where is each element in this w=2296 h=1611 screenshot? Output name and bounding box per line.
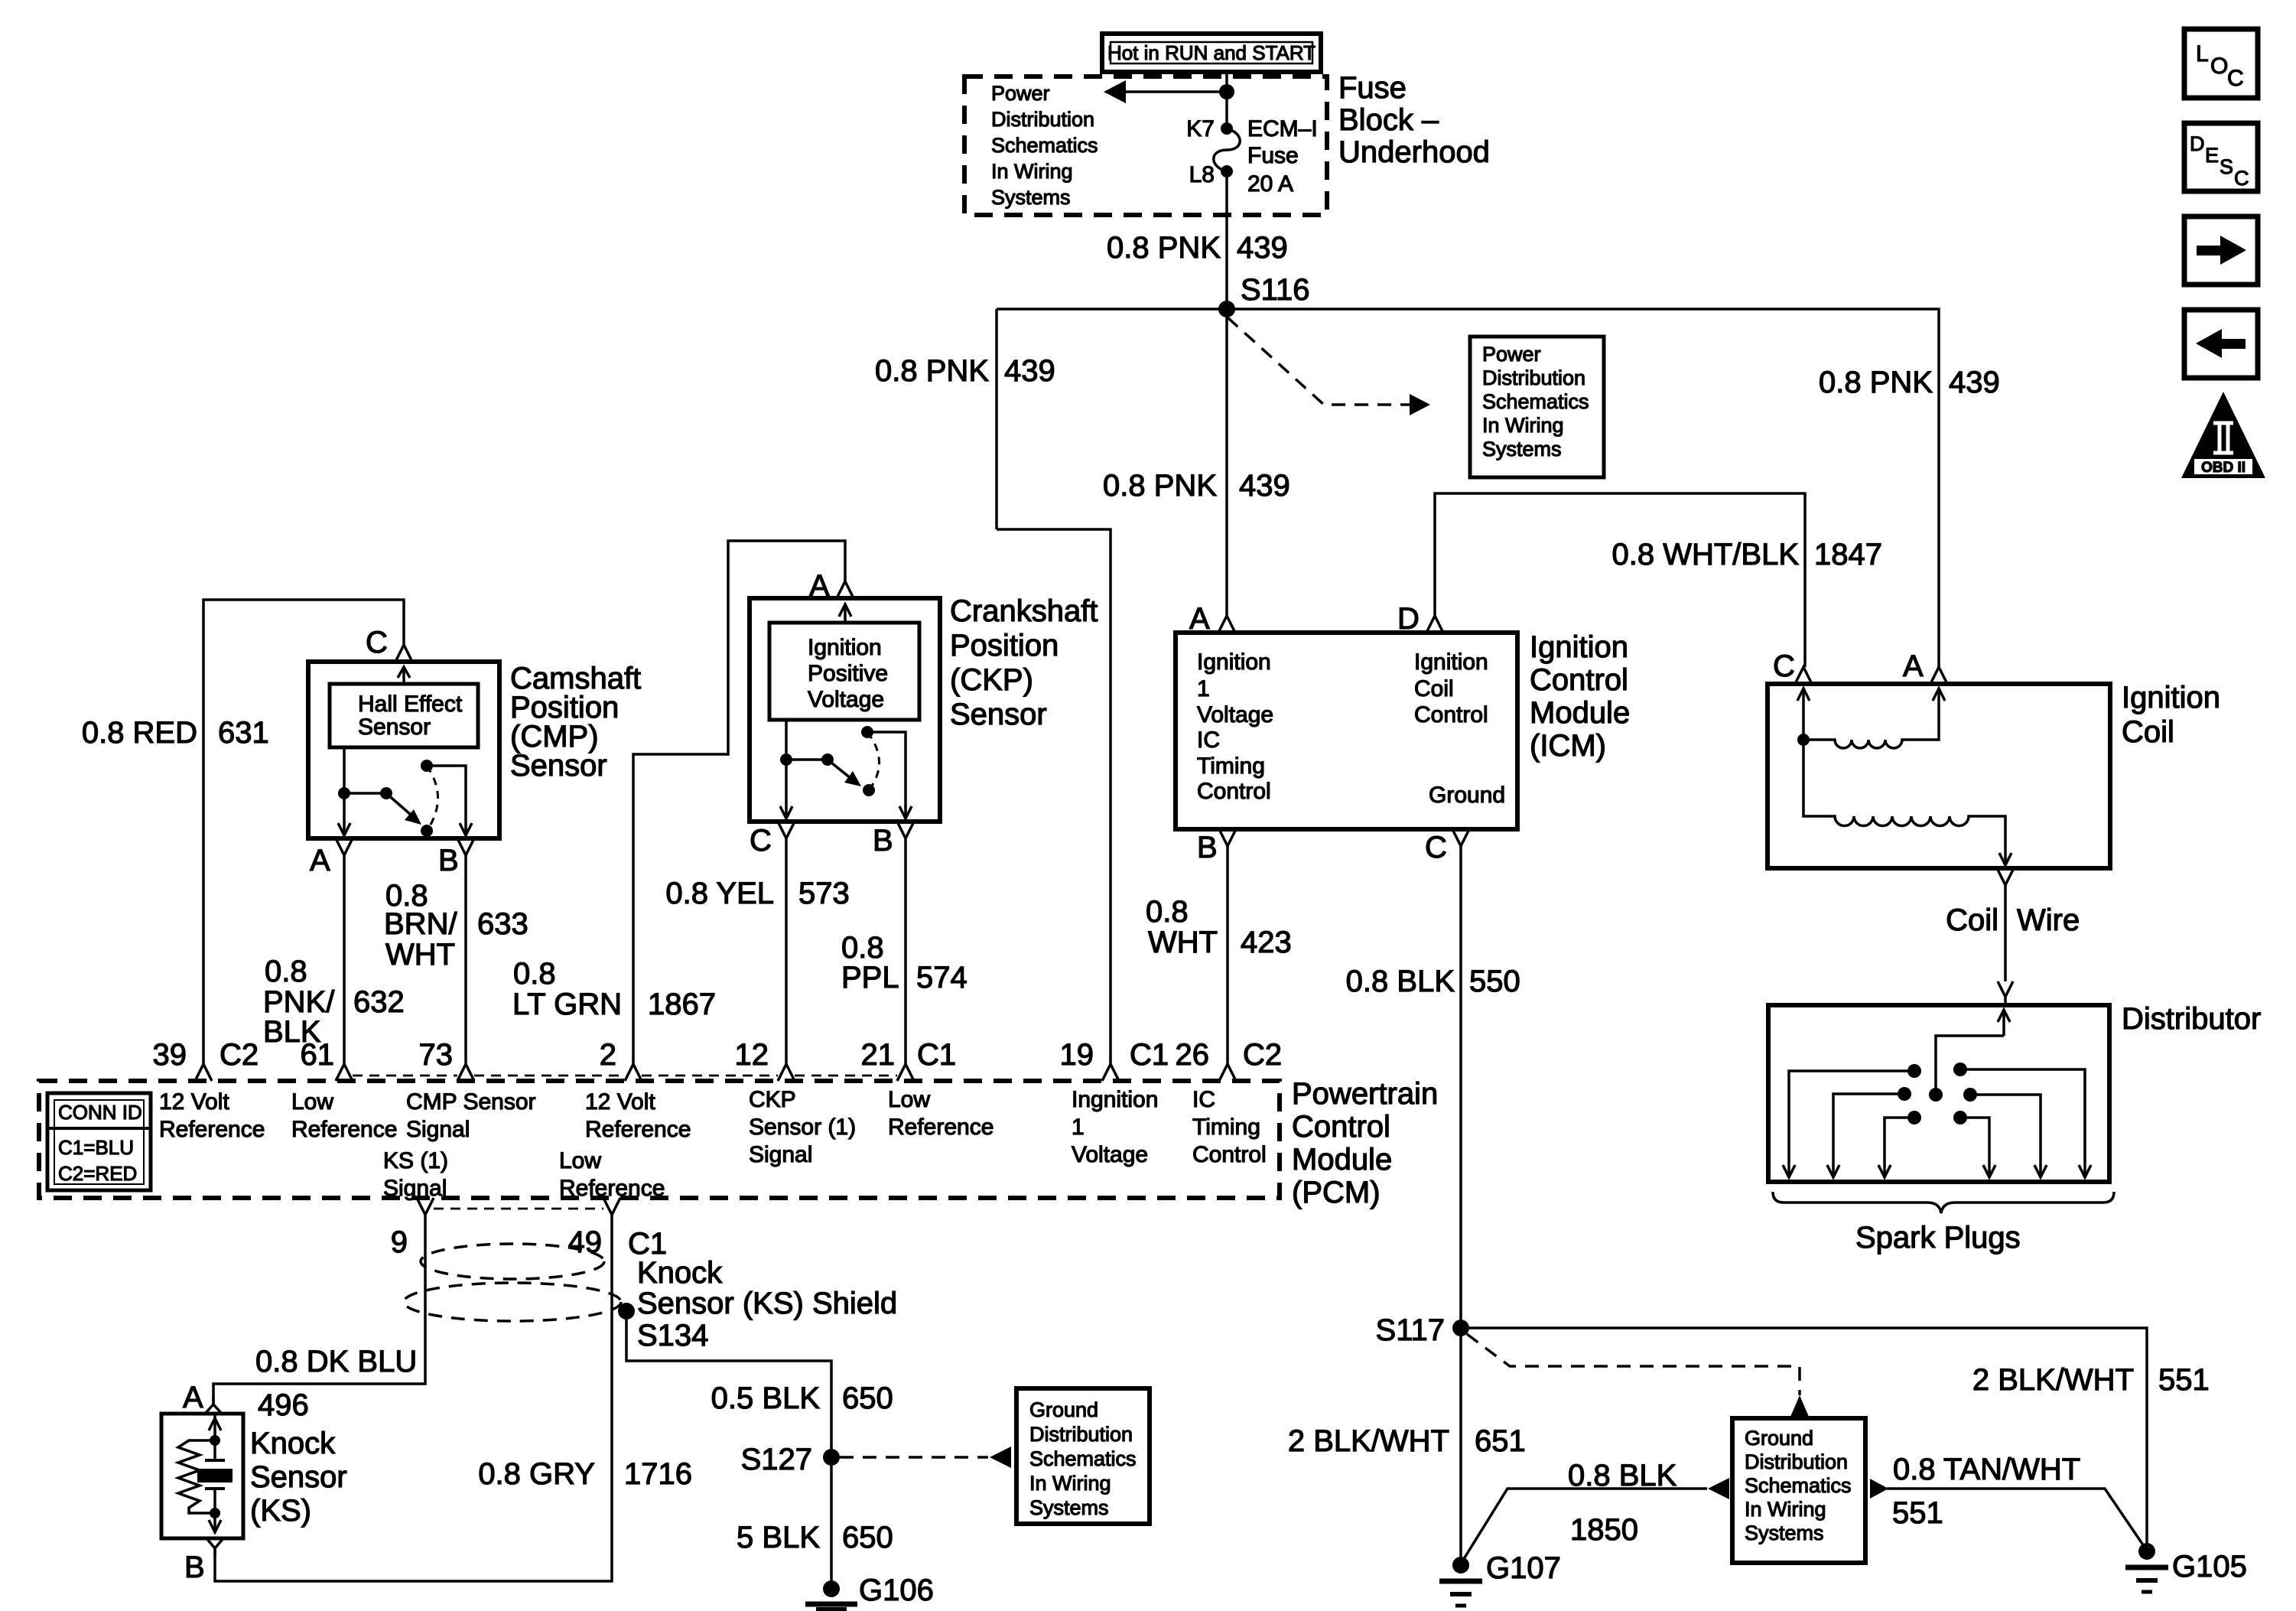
CMP internal output arrow	[398, 667, 410, 684]
svg-text:0.8: 0.8	[265, 955, 307, 988]
connector pin C of CMP	[366, 626, 412, 662]
CONN ID box	[47, 1093, 151, 1190]
svg-text:Timing: Timing	[1197, 753, 1265, 779]
wire: S117 right 2 BLK/WHT 551 to G105	[1461, 1328, 2147, 1551]
svg-text:439: 439	[1949, 366, 2000, 399]
connector pin 2 of PCM	[600, 1038, 642, 1081]
ignition control module ICM box	[1176, 633, 1517, 829]
connector pin D of ICM	[1397, 602, 1443, 636]
svg-text:G107: G107	[1486, 1551, 1561, 1585]
svg-text:C: C	[1425, 831, 1447, 864]
svg-text:S127: S127	[741, 1443, 812, 1476]
svg-text:Ignition: Ignition	[1414, 649, 1488, 675]
connector pin C of ICM	[1425, 829, 1469, 864]
connector grouping dashes	[353, 1075, 897, 1077]
svg-text:439: 439	[1004, 354, 1055, 388]
svg-text:Hall Effect: Hall Effect	[358, 692, 463, 717]
svg-text:C1: C1	[1130, 1038, 1169, 1072]
camshaft position sensor CMP box	[308, 662, 499, 838]
svg-text:1847: 1847	[1814, 538, 1882, 571]
connector pin B of knock sensor	[184, 1538, 223, 1584]
svg-text:Signal: Signal	[406, 1117, 470, 1142]
svg-text:1: 1	[1072, 1115, 1085, 1140]
svg-text:C2: C2	[1243, 1038, 1282, 1072]
svg-text:BRN/: BRN/	[384, 907, 457, 941]
svg-text:Reference: Reference	[291, 1117, 397, 1142]
CMP internal switch	[338, 747, 472, 837]
svg-text:Knock: Knock	[637, 1256, 723, 1290]
svg-text:9: 9	[391, 1225, 408, 1259]
svg-text:IC: IC	[1192, 1087, 1215, 1112]
icon LOC	[2184, 29, 2258, 98]
connector pin 49 C1 of PCM	[568, 1198, 668, 1261]
powertrain control module PCM dashed box	[39, 1081, 1280, 1198]
svg-text:LT GRN: LT GRN	[512, 988, 622, 1021]
svg-text:0.8 PNK: 0.8 PNK	[1103, 469, 1217, 503]
svg-text:1850: 1850	[1570, 1513, 1638, 1547]
svg-text:12: 12	[735, 1038, 769, 1072]
ground G107	[1439, 1551, 1561, 1606]
svg-text:Spark Plugs: Spark Plugs	[1855, 1221, 2021, 1255]
Power Distribution Schematics box (right of S116)	[1470, 337, 1604, 477]
svg-text:Ignition: Ignition	[808, 635, 882, 660]
arrow to power distribution	[1104, 80, 1227, 103]
svg-text:WHT: WHT	[385, 938, 455, 971]
svg-text:21: 21	[861, 1038, 896, 1072]
svg-text:0.8 PNK: 0.8 PNK	[1107, 231, 1221, 265]
svg-text:573: 573	[798, 877, 850, 910]
wire: ICM B 0.8 WHT 423 to PCM 26	[1226, 846, 1229, 1064]
wire: CKP A 0.8 LT GRN 1867	[633, 541, 845, 1064]
svg-text:B: B	[438, 844, 459, 877]
svg-text:73: 73	[419, 1038, 454, 1072]
wire: 0.8 PNK 439 left vertical	[995, 309, 998, 529]
svg-text:439: 439	[1237, 231, 1288, 265]
connector pin C of ignition coil	[1773, 649, 1812, 684]
wire: battery feed down from Hot box	[1225, 72, 1228, 129]
svg-text:651: 651	[1475, 1424, 1526, 1458]
icon arrow left	[2184, 310, 2258, 378]
svg-text:Sensor: Sensor	[358, 714, 431, 740]
svg-text:20 A: 20 A	[1247, 171, 1293, 197]
svg-text:Wire: Wire	[2017, 903, 2080, 937]
svg-text:496: 496	[258, 1388, 309, 1422]
PCM pin function labels	[159, 1087, 1267, 1201]
svg-text:Ground: Ground	[1429, 783, 1505, 808]
connector pin A of CMP	[310, 838, 353, 877]
svg-text:631: 631	[218, 716, 269, 750]
wire: CKP B 0.8 PPL 574	[904, 838, 907, 1064]
connector: coil output	[1997, 868, 2014, 885]
svg-text:K7: K7	[1186, 116, 1215, 142]
ground G106	[805, 1574, 934, 1609]
wire: S116 down to ICM A 0.8 PNK 439	[1225, 309, 1228, 616]
svg-text:Reference: Reference	[888, 1115, 994, 1140]
svg-text:L8: L8	[1189, 162, 1215, 187]
svg-text:S134: S134	[637, 1319, 708, 1352]
connector pin 9 of PCM	[391, 1198, 434, 1259]
wire: coil wire	[2004, 885, 2007, 981]
CKP internal switch	[780, 720, 912, 819]
wire: S116 right branch to ignition coil A	[1227, 309, 1939, 667]
wire: CMP C pin 0.8 RED 631	[203, 600, 404, 1064]
svg-text:B: B	[1197, 831, 1218, 864]
svg-text:Distributor: Distributor	[2122, 1002, 2261, 1036]
node S117	[1452, 1320, 1469, 1336]
svg-text:C2: C2	[220, 1038, 259, 1072]
svg-text:D: D	[2190, 132, 2205, 155]
svg-text:1867: 1867	[648, 988, 716, 1021]
svg-text:CONN ID: CONN ID	[58, 1101, 142, 1124]
distributor spark plug wires	[1783, 1069, 2091, 1177]
wire: CMP B 0.8 BRN/WHT 633	[464, 855, 467, 1064]
svg-text:Coil: Coil	[1414, 676, 1454, 701]
svg-text:0.8: 0.8	[513, 957, 556, 991]
svg-text:A: A	[183, 1381, 203, 1414]
connector pin A of ignition coil	[1903, 649, 1947, 684]
dashed reference from S127	[840, 1447, 1011, 1468]
svg-text:IC: IC	[1197, 727, 1220, 753]
svg-text:Timing: Timing	[1192, 1115, 1260, 1140]
svg-text:632: 632	[353, 985, 405, 1019]
svg-text:0.8 BLK: 0.8 BLK	[1568, 1459, 1677, 1492]
svg-text:0.8: 0.8	[1146, 895, 1189, 929]
svg-text:Hot in RUN and START: Hot in RUN and START	[1107, 41, 1315, 64]
connector pin 26 C2 of PCM	[1176, 1038, 1283, 1081]
distributor box	[1768, 1005, 2109, 1182]
connector grouping dashes bottom	[434, 1208, 603, 1210]
svg-text:Fuse: Fuse	[1247, 143, 1299, 168]
connector pin 61 of PCM	[301, 1038, 353, 1081]
svg-text:650: 650	[842, 1382, 893, 1415]
Hall Effect Sensor inner box	[330, 684, 478, 747]
wire: ICM D 0.8 WHT/BLK 1847 to coil C	[1435, 493, 1805, 667]
svg-text:E: E	[2205, 144, 2219, 167]
svg-text:0.8 PNK: 0.8 PNK	[1819, 366, 1933, 399]
svg-text:Ignition: Ignition	[1197, 649, 1271, 675]
svg-text:PPL: PPL	[841, 961, 899, 994]
svg-text:423: 423	[1241, 926, 1292, 959]
dashed reference wire from S116	[1228, 317, 1430, 415]
svg-text:C: C	[750, 824, 772, 858]
svg-text:A: A	[1903, 649, 1924, 683]
icon arrow right	[2184, 216, 2258, 285]
svg-text:Low: Low	[888, 1087, 930, 1112]
svg-text:1: 1	[1197, 676, 1210, 701]
wire: low reference pin 49 to knock sensor B 0.8 GRY 1716	[215, 1215, 612, 1581]
svg-text:5 BLK: 5 BLK	[737, 1521, 820, 1554]
dashed reference from S117	[1467, 1334, 1809, 1417]
svg-text:0.8 BLK: 0.8 BLK	[1346, 965, 1455, 998]
svg-text:G106: G106	[859, 1574, 934, 1607]
svg-text:0.8 PNK: 0.8 PNK	[875, 354, 989, 388]
distributor rotor and cap	[1898, 1010, 2010, 1124]
svg-text:Positive: Positive	[808, 661, 888, 686]
wire: KS(1) signal pin 9 to knock sensor A 0.8 DK BLU 496	[213, 1215, 425, 1404]
icon DESC	[2184, 123, 2258, 191]
connector pin 73 of PCM	[419, 1038, 475, 1081]
svg-text:650: 650	[842, 1521, 893, 1554]
svg-text:Sensor (KS) Shield: Sensor (KS) Shield	[637, 1287, 897, 1320]
svg-text:Sensor (1): Sensor (1)	[749, 1115, 856, 1140]
connector pin A of ICM	[1189, 602, 1235, 636]
svg-text:WHT: WHT	[1148, 926, 1218, 959]
svg-text:551: 551	[2158, 1363, 2210, 1397]
svg-text:Control: Control	[1414, 702, 1488, 727]
wire: fuse output 0.8 PNK 439 down to S116	[1225, 171, 1228, 309]
svg-text:633: 633	[477, 907, 528, 941]
ignition coil box	[1768, 684, 2110, 868]
Hot in RUN and START box	[1102, 34, 1321, 72]
svg-text:Reference: Reference	[559, 1176, 665, 1201]
svg-text:0.8 DK BLU: 0.8 DK BLU	[255, 1345, 417, 1378]
svg-text:C: C	[2234, 167, 2249, 190]
svg-text:Voltage: Voltage	[1072, 1142, 1148, 1167]
connector pin 12 of PCM	[735, 1038, 795, 1081]
connector pin B of CKP	[873, 822, 914, 858]
wire: CKP C 0.8 YEL 573	[785, 838, 788, 1064]
connector pin 39 C2 of PCM	[153, 1038, 259, 1081]
svg-text:A: A	[1189, 602, 1210, 636]
svg-text:S117: S117	[1376, 1313, 1445, 1347]
svg-text:Coil: Coil	[1946, 903, 1998, 937]
svg-text:550: 550	[1469, 965, 1520, 998]
svg-text:Signal: Signal	[383, 1176, 447, 1201]
svg-text:2 BLK/WHT: 2 BLK/WHT	[1972, 1363, 2134, 1397]
svg-text:1716: 1716	[624, 1457, 692, 1491]
connector pin A of CKP	[809, 569, 854, 603]
wire: shield drain to S127	[626, 1311, 831, 1457]
svg-text:19: 19	[1060, 1038, 1094, 1072]
wire: 0.8 TAN/WHT 551 from box to G105	[1870, 1453, 2145, 1548]
svg-text:0.8 GRY: 0.8 GRY	[478, 1457, 595, 1491]
connector: distributor input	[1998, 981, 2013, 1005]
wire: S117 down 2 BLK/WHT 651 to G107	[1459, 1328, 1462, 1565]
svg-text:OBD II: OBD II	[2201, 460, 2246, 476]
svg-text:S116: S116	[1241, 273, 1309, 307]
svg-text:B: B	[184, 1551, 205, 1584]
svg-text:Voltage: Voltage	[808, 687, 884, 712]
svg-text:CKP: CKP	[749, 1087, 796, 1112]
svg-text:0.5 BLK: 0.5 BLK	[711, 1382, 821, 1415]
svg-text:574: 574	[916, 961, 968, 994]
svg-text:551: 551	[1892, 1496, 1943, 1530]
wire: S127 to G106 5 BLK 650	[830, 1457, 833, 1581]
icon OBD II triangle	[2181, 392, 2265, 478]
connector pin 19 C1 of PCM	[1060, 1038, 1169, 1081]
svg-text:0.8 YEL: 0.8 YEL	[665, 877, 774, 910]
node S116	[1218, 301, 1235, 317]
ground G105	[2125, 1543, 2247, 1592]
node S134	[618, 1303, 635, 1320]
svg-text:PNK/: PNK/	[263, 985, 335, 1019]
svg-text:2: 2	[600, 1038, 616, 1072]
svg-text:Low: Low	[559, 1148, 601, 1173]
Fuse Block - Underhood dashed box	[964, 71, 1490, 215]
svg-text:C: C	[2227, 66, 2244, 91]
knock sensor shield rings	[404, 1244, 621, 1321]
connector pin 21 C1 of PCM	[861, 1038, 957, 1081]
svg-text:0.8 RED: 0.8 RED	[82, 716, 197, 750]
wire: CMP A 0.8 PNK/BLK 632	[343, 855, 346, 1064]
Ignition Positive Voltage inner box	[769, 623, 919, 720]
knock sensor KS box	[161, 1414, 243, 1538]
svg-text:439: 439	[1239, 469, 1290, 503]
wire: 0.8 BLK 1850 from G107 to ground distribution box	[1462, 1459, 1729, 1561]
svg-text:C: C	[1773, 649, 1795, 683]
svg-text:0.8 WHT/BLK: 0.8 WHT/BLK	[1611, 538, 1799, 571]
svg-text:B: B	[873, 824, 893, 858]
svg-text:Reference: Reference	[159, 1117, 265, 1142]
svg-text:26: 26	[1176, 1038, 1210, 1072]
svg-text:O: O	[2210, 54, 2228, 79]
crankshaft position sensor CKP box	[750, 598, 940, 822]
svg-text:Control: Control	[1192, 1142, 1267, 1167]
svg-text:39: 39	[153, 1038, 187, 1072]
svg-text:C: C	[366, 626, 388, 659]
svg-text:0.8 TAN/WHT: 0.8 TAN/WHT	[1893, 1453, 2080, 1486]
connector pin B of CMP	[438, 838, 474, 877]
Ground Distribution Schematics box (grounds)	[1732, 1418, 1865, 1563]
wire: jog to pin 19	[997, 529, 1111, 1064]
svg-text:Ingnition: Ingnition	[1072, 1087, 1158, 1112]
connector pin A of knock sensor	[183, 1381, 222, 1414]
svg-text:S: S	[2220, 155, 2233, 178]
svg-text:KS (1): KS (1)	[383, 1148, 448, 1173]
svg-text:0.8: 0.8	[841, 931, 884, 965]
Ground Distribution Schematics box (S127)	[1016, 1388, 1150, 1524]
svg-text:12 Volt: 12 Volt	[585, 1089, 655, 1115]
node S127	[823, 1449, 840, 1466]
svg-text:12 Volt: 12 Volt	[159, 1089, 229, 1115]
svg-text:C2=RED: C2=RED	[58, 1162, 137, 1185]
wire: S116 left branch	[997, 308, 1227, 311]
svg-text:Signal: Signal	[749, 1142, 812, 1167]
svg-text:2 BLK/WHT: 2 BLK/WHT	[1288, 1424, 1449, 1458]
svg-text:C1=BLU: C1=BLU	[58, 1136, 134, 1159]
connector pin B of ICM	[1197, 829, 1236, 864]
svg-text:D: D	[1397, 602, 1420, 636]
svg-text:Low: Low	[291, 1089, 333, 1115]
svg-text:CMP Sensor: CMP Sensor	[406, 1089, 536, 1115]
svg-text:Control: Control	[1197, 779, 1271, 804]
svg-text:G105: G105	[2172, 1550, 2247, 1583]
knock sensor piezo element	[178, 1414, 233, 1532]
ignition coil secondary winding	[1803, 740, 2011, 865]
fuse ECM-I 20A	[1186, 116, 1317, 197]
node: feed junction	[1219, 84, 1234, 99]
connector pin C of CKP	[750, 822, 795, 858]
spark plugs brace	[1773, 1192, 2114, 1213]
ICM internal labels	[1197, 649, 1505, 808]
svg-text:Voltage: Voltage	[1197, 702, 1273, 727]
svg-text:A: A	[310, 844, 330, 877]
svg-text:C1: C1	[917, 1038, 956, 1072]
svg-text:L: L	[2196, 41, 2209, 67]
svg-text:Reference: Reference	[585, 1117, 691, 1142]
svg-text:ECM–I: ECM–I	[1247, 116, 1318, 142]
wire: ICM C 0.8 BLK 550 to S117	[1459, 846, 1462, 1328]
svg-text:61: 61	[301, 1038, 335, 1072]
ignition coil primary winding	[1797, 688, 1945, 748]
CKP internal input arrow	[839, 604, 851, 623]
